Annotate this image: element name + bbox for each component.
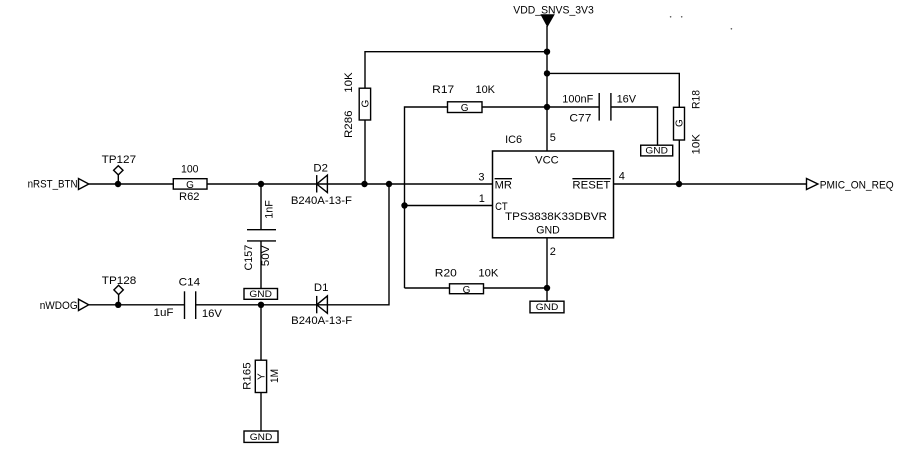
svg-text:1: 1	[479, 193, 485, 205]
svg-text:100: 100	[181, 164, 199, 176]
svg-text:G: G	[463, 285, 471, 296]
svg-text:MR: MR	[495, 179, 512, 191]
svg-text:5: 5	[550, 132, 556, 144]
svg-text:1nF: 1nF	[263, 200, 275, 219]
svg-text:16V: 16V	[202, 308, 223, 320]
junction VCC rail2	[544, 70, 550, 76]
resistor R17	[405, 84, 600, 288]
svg-text:nRST_BTN: nRST_BTN	[28, 178, 78, 190]
svg-text:Y: Y	[257, 373, 268, 380]
junction VCC R17/C77 net	[544, 104, 550, 110]
junction R20 / pin2	[544, 285, 550, 291]
ground GND (C157)	[244, 289, 278, 300]
svg-text:G: G	[461, 103, 469, 114]
junction R286 tap	[361, 181, 367, 187]
wire IC pin 4 to output	[614, 183, 807, 185]
svg-text:G: G	[186, 180, 194, 191]
junction TP128 on nWDOG net	[115, 302, 121, 308]
svg-text:IC6: IC6	[505, 134, 522, 146]
svg-text:D1: D1	[314, 282, 329, 294]
svg-text:VCC: VCC	[535, 154, 559, 166]
junction TP127 on nRST net	[115, 181, 121, 187]
resistor R62	[173, 164, 207, 203]
svg-text:G: G	[360, 100, 371, 108]
wire rail2 to R18	[547, 73, 679, 107]
ground GND (R165)	[244, 431, 278, 442]
wire D1 to riser	[327, 184, 389, 305]
resistor R18	[674, 90, 703, 184]
svg-text:R165: R165	[242, 362, 254, 390]
wire D2 to IC pin 3	[327, 183, 492, 185]
svg-text:PMIC_ON_REQ: PMIC_ON_REQ	[820, 179, 894, 191]
svg-text:TPS3838K33DBVR: TPS3838K33DBVR	[505, 211, 607, 223]
wire R62 to D2	[207, 183, 327, 185]
resistor R20	[405, 267, 548, 296]
junction R18 / output	[676, 181, 682, 187]
IC6 TPS3838K33DBVR	[493, 134, 614, 238]
svg-text:GND: GND	[536, 225, 560, 237]
capacitor C77	[562, 93, 657, 145]
svg-text:C14: C14	[179, 277, 201, 289]
wire C14 to D1	[196, 304, 328, 306]
svg-text:3: 3	[478, 171, 484, 183]
svg-text:GND: GND	[536, 302, 559, 312]
resistor R165	[242, 305, 282, 431]
wire VCC vertical	[546, 26, 548, 151]
diode D1 B240A-13-F	[291, 282, 352, 327]
svg-text:R286: R286	[343, 111, 355, 139]
junction CT on riser	[401, 202, 407, 208]
svg-text:1M: 1M	[269, 369, 281, 383]
junction VCC rail1	[544, 49, 550, 55]
svg-text:10K: 10K	[691, 133, 703, 154]
svg-text:R17: R17	[432, 84, 454, 96]
wire rail1 to R286	[365, 52, 547, 88]
port nRST_BTN	[28, 178, 89, 190]
test point TP128	[102, 275, 137, 305]
svg-text:10K: 10K	[343, 72, 355, 93]
svg-text:100nF: 100nF	[562, 93, 593, 105]
svg-text:1uF: 1uF	[154, 307, 174, 319]
svg-text:2: 2	[550, 246, 556, 258]
svg-text:GND: GND	[645, 146, 668, 156]
svg-text:R20: R20	[435, 267, 457, 279]
ground GND (C77)	[641, 145, 673, 156]
power symbol VDD_SNVS_3V3	[513, 4, 594, 25]
wire CT net	[405, 205, 493, 207]
svg-text:16V: 16V	[617, 93, 637, 105]
capacitor C157	[243, 184, 276, 289]
svg-text:10K: 10K	[476, 84, 496, 96]
svg-text:GND: GND	[250, 432, 273, 442]
resistor R286	[343, 72, 372, 184]
svg-text:D2: D2	[313, 162, 328, 174]
svg-text:10K: 10K	[478, 267, 499, 279]
svg-text:TP127: TP127	[102, 154, 137, 166]
wire IC pin 2 down	[546, 238, 548, 302]
wire nWDOG left segment	[89, 304, 185, 306]
junction D1 riser tap	[386, 181, 392, 187]
svg-text:G: G	[675, 119, 686, 127]
junction C14/D1/R165	[258, 302, 264, 308]
svg-text:C157: C157	[243, 245, 255, 271]
capacitor C14	[154, 277, 223, 321]
port nWDOG	[40, 299, 89, 312]
wire nRST net left segment	[89, 183, 174, 185]
speck artifacts top right	[670, 16, 732, 30]
test point TP127	[102, 154, 137, 184]
ground GND (pin 2)	[530, 301, 564, 313]
svg-text:R62: R62	[179, 191, 200, 203]
svg-text:4: 4	[619, 171, 625, 183]
svg-text:C77: C77	[569, 113, 591, 125]
svg-text:nWDOG: nWDOG	[40, 300, 78, 312]
svg-text:RESET: RESET	[572, 179, 610, 191]
svg-text:R18: R18	[691, 90, 703, 109]
port PMIC_ON_REQ	[807, 179, 895, 192]
svg-text:B240A-13-F: B240A-13-F	[291, 195, 352, 207]
junction C157 tap	[258, 181, 264, 187]
diode D2 B240A-13-F	[291, 162, 352, 207]
svg-text:GND: GND	[249, 289, 272, 299]
svg-text:B240A-13-F: B240A-13-F	[291, 315, 352, 327]
